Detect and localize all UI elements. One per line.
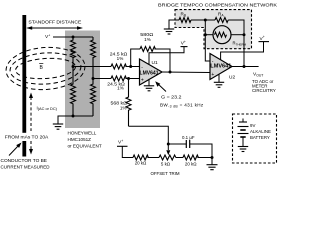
wire V+ to bridge top rail <box>53 36 93 38</box>
resistor 20k right <box>183 155 198 160</box>
svg-text:9V: 9V <box>250 123 255 128</box>
current direction dashed arrow (up) <box>29 93 33 132</box>
node output/feedback <box>243 65 246 68</box>
svg-text:CONDUCTOR TO BE: CONDUCTOR TO BE <box>1 158 47 163</box>
resistor 568k <box>126 79 131 127</box>
node thermistor right <box>243 33 246 36</box>
svg-text:I(AC or DC): I(AC or DC) <box>37 106 58 112</box>
svg-text:1%: 1% <box>144 37 151 42</box>
battery B1 9V <box>238 119 249 147</box>
conductor callout arrow <box>9 143 22 156</box>
node bridge left output <box>72 65 75 68</box>
wire pot to 20k right <box>176 157 183 159</box>
bridge resistor top-left <box>71 37 76 67</box>
wire RA right to down <box>228 20 244 35</box>
svg-text:OFFSET TRIM: OFFSET TRIM <box>150 171 179 176</box>
svg-text:1%: 1% <box>120 106 127 111</box>
svg-text:G = 23.2: G = 23.2 <box>161 95 182 100</box>
wire R4 to U1 non-inverting input <box>125 78 139 80</box>
gain annotation arrow <box>155 81 166 91</box>
svg-text:RTHERM: RTHERM <box>233 41 247 47</box>
svg-text:BRIDGE TEMPCO COMPENSATION NET: BRIDGE TEMPCO COMPENSATION NETWORK <box>158 3 277 8</box>
svg-text:CURRENT MEASURED: CURRENT MEASURED <box>1 164 51 169</box>
svg-text:0.1 μF: 0.1 μF <box>182 135 195 140</box>
ground (bridge) <box>53 124 63 129</box>
node bridge right output <box>92 77 95 80</box>
svg-text:FROM mAs TO 20A: FROM mAs TO 20A <box>5 135 49 140</box>
potentiometer wiper arrow <box>166 150 170 155</box>
node bridge top left <box>72 36 75 39</box>
U1 ground <box>144 79 154 91</box>
wire 568k to trim wiper <box>129 126 169 150</box>
U1 V+ terminal <box>149 40 188 64</box>
ground (tempco network) <box>164 20 179 34</box>
op-amp U1 <box>140 59 163 85</box>
standoff distance arrow <box>26 26 83 30</box>
svg-text:LMV641: LMV641 <box>140 70 159 76</box>
ground (offset trim) <box>207 158 218 170</box>
capacitor 0.1uF <box>168 140 212 158</box>
svg-text:STANDOFF DISTANCE: STANDOFF DISTANCE <box>28 19 81 24</box>
svg-text:U2: U2 <box>229 75 235 81</box>
bridge resistor top-right <box>91 37 96 79</box>
battery dashed box <box>233 114 277 163</box>
wire R3 to U1 inverting input <box>125 66 139 68</box>
svg-text:BATTERY: BATTERY <box>250 135 270 140</box>
U2 V+ terminal <box>221 35 269 60</box>
svg-text:HMC1051Z: HMC1051Z <box>68 137 92 142</box>
svg-text:or EQUIVALENT: or EQUIVALENT <box>68 143 102 148</box>
svg-text:+: + <box>211 72 214 78</box>
svg-text:+: + <box>141 77 144 83</box>
wire tempco feedback to output <box>243 35 245 67</box>
node B field label <box>39 63 43 71</box>
wire U1 output to U2 input <box>162 71 210 74</box>
node bridge bottom <box>72 115 75 118</box>
svg-text:20 kΩ: 20 kΩ <box>185 162 197 167</box>
resistor R4 24.5k bottom <box>111 76 126 81</box>
bridge bottom rail <box>58 116 93 124</box>
resistor 580 feedback <box>131 47 170 73</box>
wire 20k right to ground node <box>197 157 212 159</box>
node 568k tap <box>127 77 130 80</box>
wire to potentiometer <box>147 157 159 159</box>
current direction dashed arrow (down) <box>29 141 33 155</box>
resistor RA <box>215 18 228 23</box>
V+ terminal (offset trim) <box>117 139 133 158</box>
potentiometer 5k <box>159 155 176 160</box>
thermistor RTHERM <box>205 26 244 44</box>
svg-text:1%: 1% <box>117 86 124 91</box>
wire bridge right output to R4 <box>93 78 111 80</box>
node RB/RA junction <box>204 19 207 22</box>
ground (battery) <box>238 147 248 152</box>
wire tempco to U2 inverting input <box>205 20 210 61</box>
resistor R3 24.5k top <box>111 64 126 69</box>
magnetic field dashed ellipses <box>5 45 87 92</box>
wire RB to RA <box>191 19 215 21</box>
svg-text:U1: U1 <box>152 60 158 66</box>
svg-text:LMV641: LMV641 <box>210 64 231 70</box>
wire U2 output <box>232 66 259 68</box>
resistor 20k left <box>133 155 148 160</box>
sensor gray box (Honeywell bridge) <box>65 31 100 129</box>
conductor bus bar <box>22 15 26 133</box>
FROM mAs TO 20A label <box>4 133 50 140</box>
bridge resistor bottom-right <box>91 79 96 116</box>
node thermistor left <box>204 33 207 36</box>
U2 ground <box>214 74 224 87</box>
tempco dashed box <box>175 10 252 49</box>
svg-text:5 kΩ: 5 kΩ <box>161 162 171 167</box>
node trim ground <box>211 156 214 159</box>
svg-text:CIRCUITRY: CIRCUITRY <box>252 88 276 93</box>
svg-text:ALKALINE: ALKALINE <box>250 129 271 134</box>
node wiper/cap tap <box>167 143 170 146</box>
node feedback tap <box>129 65 132 68</box>
resistor RB <box>179 18 191 23</box>
svg-text:20 kΩ: 20 kΩ <box>135 161 147 166</box>
op-amp U2 <box>210 54 232 80</box>
wire bridge left output to R3 <box>73 66 111 68</box>
bridge resistor bottom-left <box>71 67 76 116</box>
svg-text:HONEYWELL: HONEYWELL <box>68 130 97 135</box>
node U1 output/feedback <box>169 71 172 74</box>
svg-text:1%: 1% <box>117 56 124 61</box>
